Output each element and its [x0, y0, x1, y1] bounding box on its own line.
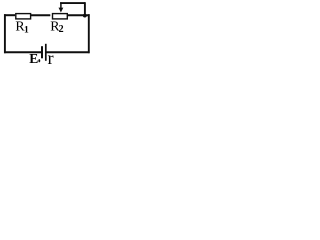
comma after E [38, 59, 40, 62]
battery E long plate (positive) [45, 44, 47, 61]
svg-text:2: 2 [59, 24, 64, 35]
wire top-left segment [4, 14, 15, 16]
wire rheostat slider horizontal [60, 2, 85, 4]
wire top right segment [68, 14, 90, 16]
arrow stem of rheostat slider [60, 2, 62, 8]
svg-text:E: E [29, 51, 38, 66]
wire rheostat slider vertical drop [84, 2, 86, 15]
resistor R1 box [16, 14, 31, 19]
wire bottom right segment [46, 51, 89, 53]
wire bottom left segment [4, 51, 41, 53]
wire left vertical [4, 14, 6, 53]
resistor R2 box (rheostat) [53, 14, 68, 19]
svg-text:r: r [48, 48, 54, 67]
wire right vertical [88, 14, 90, 53]
svg-text:1: 1 [24, 24, 29, 35]
arrowhead of rheostat slider [59, 8, 64, 13]
wire top middle segment [31, 14, 51, 16]
node junction dot [83, 14, 87, 18]
battery E short plate (negative) [41, 46, 43, 58]
